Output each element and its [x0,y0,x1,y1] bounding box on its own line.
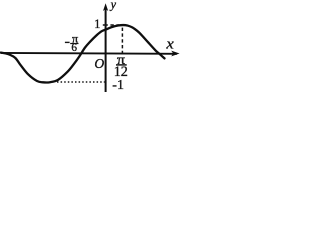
x-axis [1,52,178,55]
x-axis arrowhead [171,51,179,57]
svg-text:x: x [165,37,174,53]
-pi/6 label [65,41,70,43]
y-axis [105,8,107,92]
svg-text:O: O [94,56,104,71]
svg-text:6: 6 [71,42,77,54]
sine curve [1,25,165,82]
background [0,0,182,92]
tick and dashed line at y=1 to peak [103,24,119,26]
y-axis arrowhead [103,3,108,11]
svg-text:1: 1 [94,17,100,31]
dashed vertical from peak to x-axis [121,28,123,53]
svg-text:-1: -1 [112,78,124,92]
dotted line at y=-1 from trough to y-axis [57,81,105,83]
svg-text:y: y [109,0,117,11]
